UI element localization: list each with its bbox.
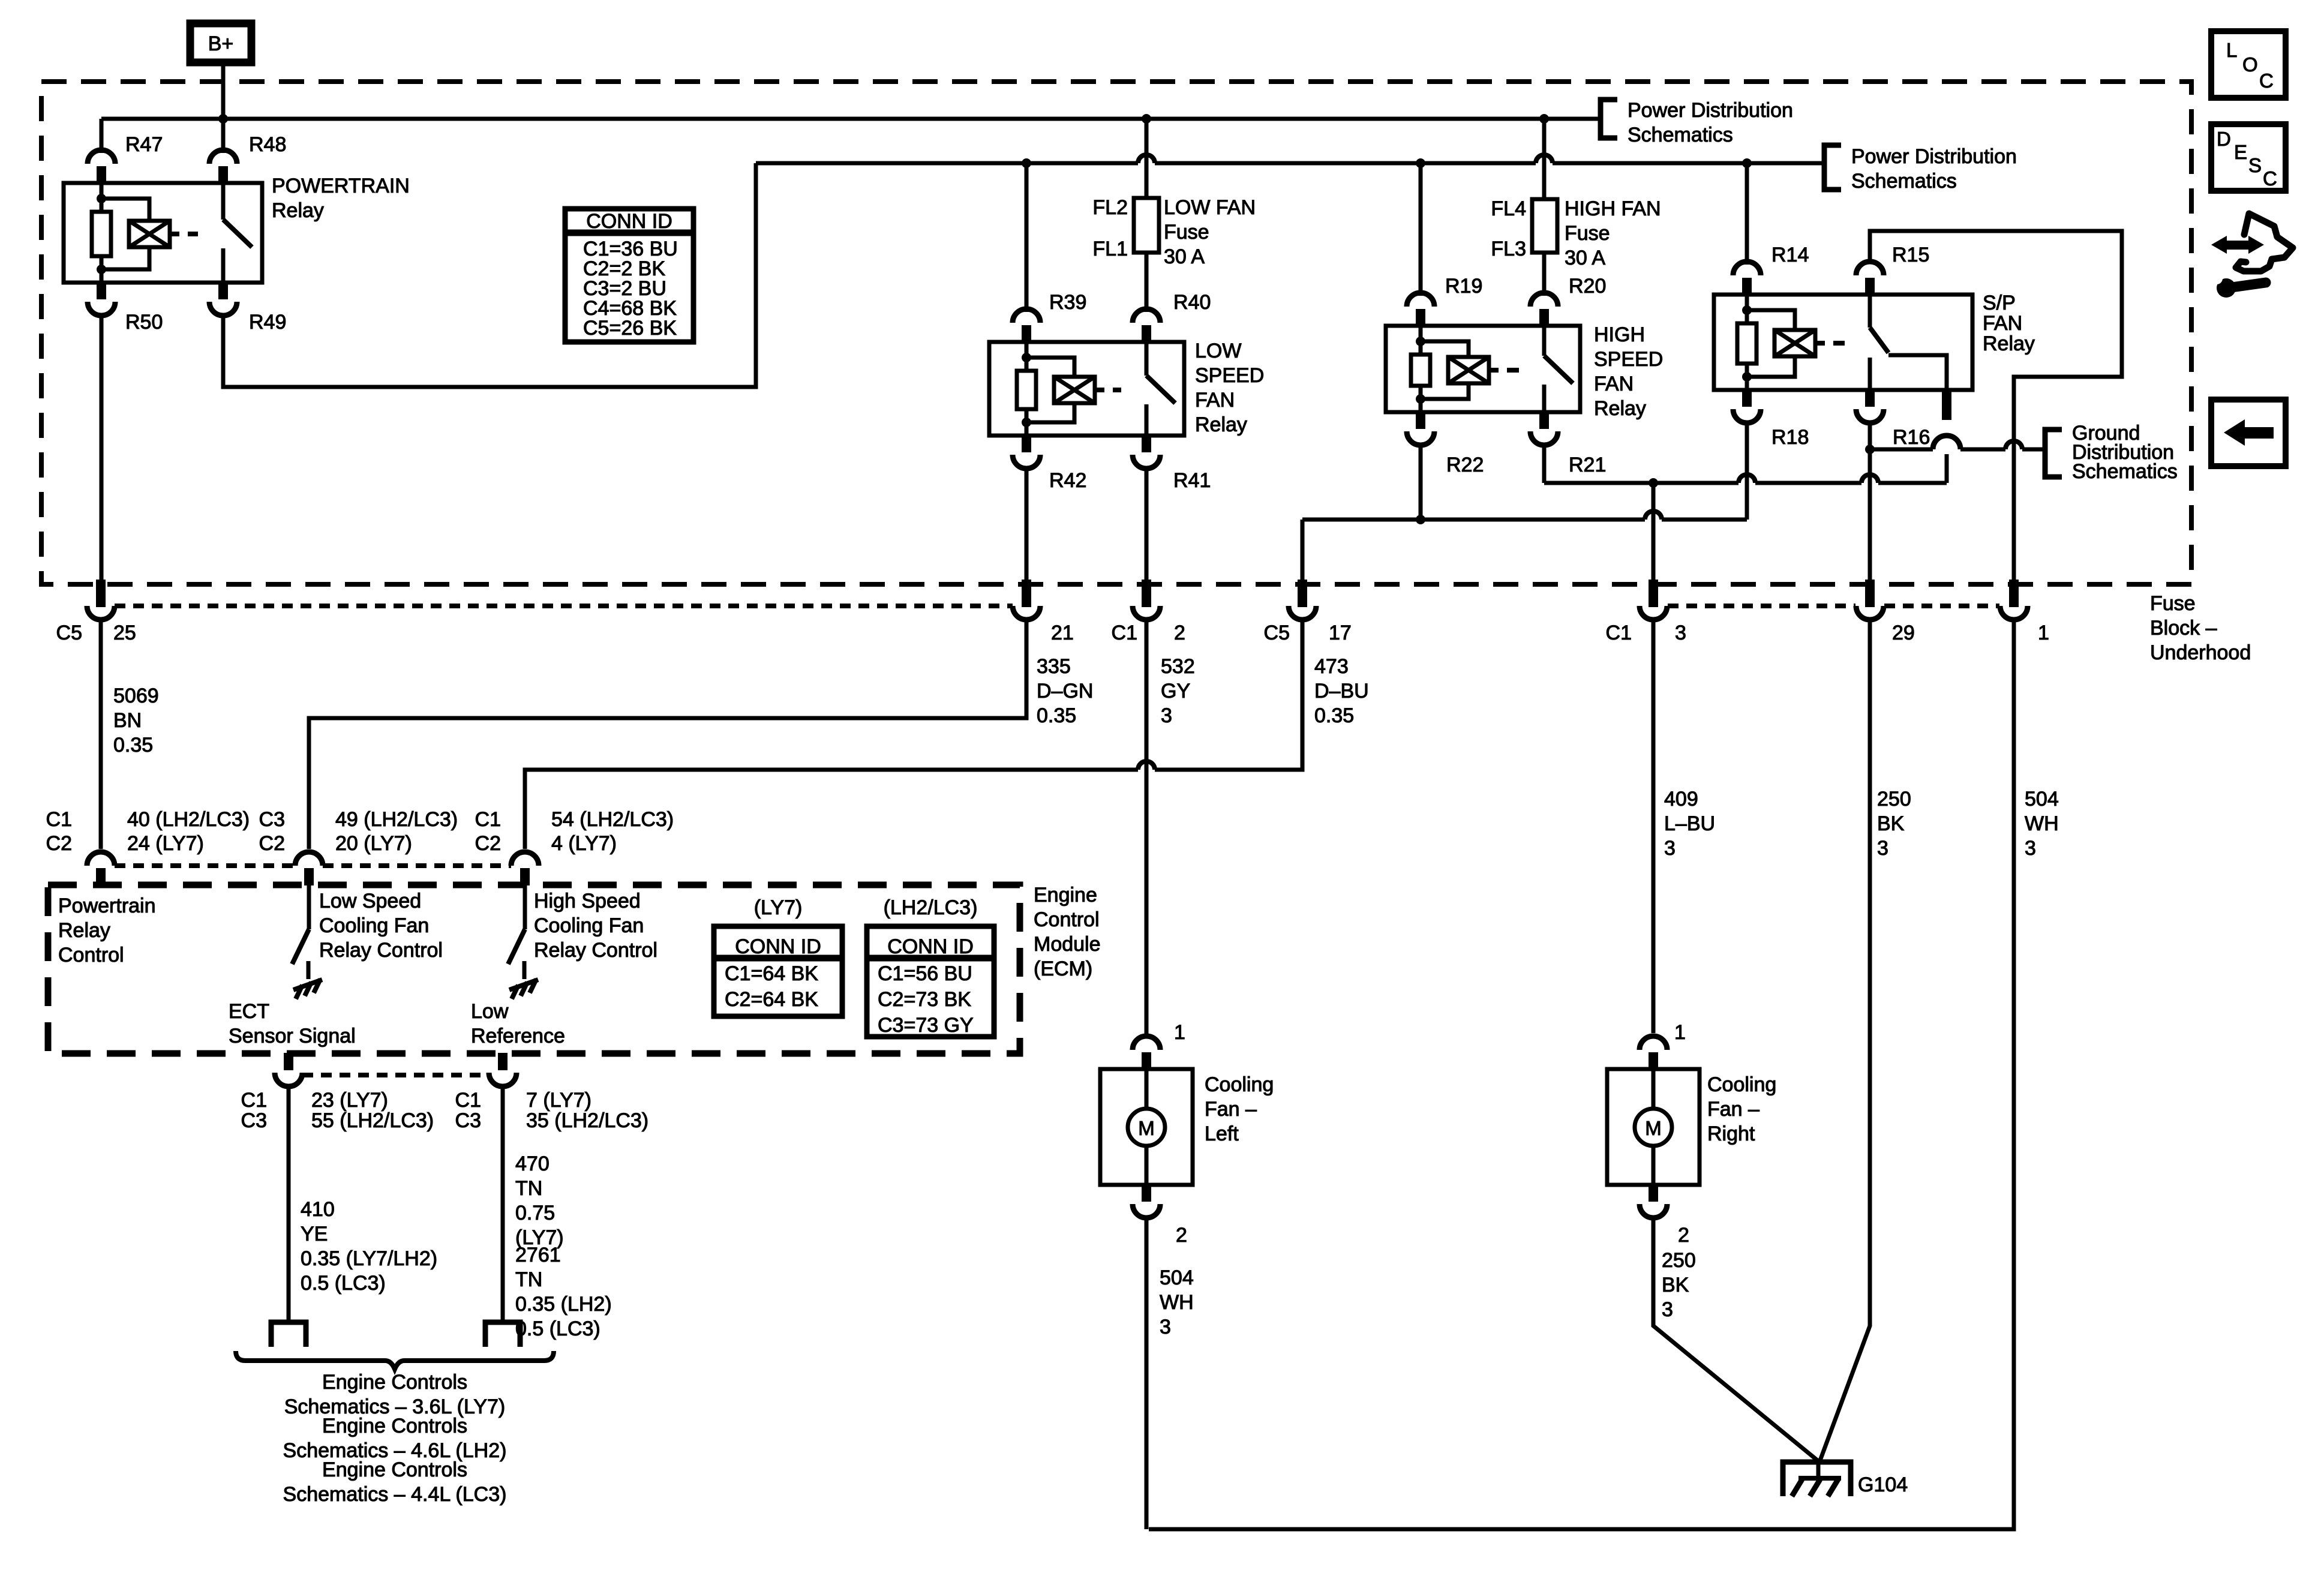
wire S/P output pin to line B	[1945, 449, 1949, 483]
wire 532 GY (pin2 to left fan)	[1145, 620, 1149, 1033]
label (LH2/LC3)	[884, 896, 978, 919]
wire R21 to S/P switched pin (line B)	[1544, 445, 1947, 489]
terminal (ECT signal off-page)	[271, 1322, 306, 1347]
ECM pin C3C2-49/20	[295, 852, 511, 885]
svg-text:D–GN: D–GN	[1037, 680, 1093, 703]
brace engine controls	[236, 1351, 554, 1369]
ECT pin C1C3-7/35	[489, 1053, 517, 1086]
pin R18	[1733, 389, 1761, 423]
svg-text:3: 3	[1664, 837, 1676, 860]
label R22	[1446, 454, 1484, 476]
svg-text:3: 3	[1662, 1298, 1673, 1321]
labels C1 C2 (ECM pin 54/4)	[475, 808, 501, 855]
pin R19	[1407, 293, 1434, 326]
svg-text:410: 410	[301, 1198, 335, 1221]
label Cooling Fan - Left	[1205, 1073, 1274, 1145]
label Engine Controls Schematics 4.4L LC3	[283, 1458, 507, 1506]
wire 250 BK (pin29 to G104)	[1819, 620, 1870, 1462]
wire S/P blade output to lower pin	[1888, 355, 1947, 390]
svg-text:0.35: 0.35	[1037, 704, 1076, 727]
svg-text:54 (LH2/LC3): 54 (LH2/LC3)	[551, 808, 674, 831]
wire R49 to bus2	[223, 163, 756, 387]
svg-text:Sensor Signal: Sensor Signal	[229, 1025, 356, 1047]
label HIGH FAN Fuse 30 A	[1565, 197, 1661, 269]
wire bus2 to R19	[1419, 163, 1423, 296]
wire fuse FL1 to R40	[1145, 253, 1149, 312]
label R50	[125, 311, 163, 334]
wire fan left pin2 504 WH	[1145, 1218, 1149, 1529]
label Power Distribution Schematics (bus1)	[1628, 99, 1793, 146]
junction R14 feed on bus2	[1742, 158, 1752, 168]
svg-text:C1: C1	[475, 808, 501, 831]
off-page bracket Power Distribution (bus1)	[1601, 100, 1617, 138]
label 410 YE 0.35/0.5	[301, 1198, 437, 1295]
label 2 (fan right pin)	[1678, 1224, 1689, 1247]
svg-text:Block –: Block –	[2150, 617, 2217, 640]
svg-text:40 (LH2/LC3): 40 (LH2/LC3)	[127, 808, 250, 831]
svg-text:3: 3	[1877, 837, 1888, 860]
svg-text:C2=64 BK: C2=64 BK	[725, 988, 818, 1011]
label Ground Distribution Schematics	[2072, 422, 2178, 483]
label 3	[1675, 622, 1686, 644]
svg-text:C1=56 BU: C1=56 BU	[878, 962, 972, 985]
pin R22	[1407, 412, 1434, 445]
svg-text:M: M	[1645, 1117, 1662, 1139]
pin R20	[1530, 293, 1558, 326]
svg-text:3: 3	[2025, 837, 2036, 860]
ECT pin C1C3-23/55	[275, 1053, 302, 1086]
pin R42	[1013, 435, 1040, 469]
ECM pin C1C2-54/4	[511, 852, 539, 885]
labels C1 C3 (ECT left)	[241, 1089, 267, 1132]
relay K-sp-fan internals	[1737, 295, 1888, 390]
battery feed B+ terminal	[190, 23, 251, 62]
svg-text:2761: 2761	[515, 1244, 561, 1266]
wire 335 D-GN (pin21 to ECM)	[309, 620, 1026, 849]
wire B+ to bus	[221, 66, 226, 119]
label R42	[1049, 469, 1086, 492]
label R20	[1569, 275, 1606, 298]
svg-text:Cooling: Cooling	[1205, 1073, 1274, 1096]
svg-text:Module: Module	[1034, 933, 1101, 956]
label R21	[1569, 454, 1606, 476]
svg-text:POWERTRAIN: POWERTRAIN	[272, 175, 410, 197]
table CONN ID (fuse block)	[565, 209, 693, 342]
svg-text:B+: B+	[208, 32, 234, 55]
svg-text:55 (LH2/LC3): 55 (LH2/LC3)	[311, 1109, 434, 1132]
svg-text:C3=73 GY: C3=73 GY	[878, 1014, 974, 1037]
pin R15	[1856, 262, 1884, 295]
svg-text:C2: C2	[259, 832, 285, 855]
junction B+ on bus1	[218, 114, 228, 124]
label Engine Controls Schematics 4.6L LH2	[283, 1415, 507, 1462]
svg-text:7 (LY7): 7 (LY7)	[526, 1089, 591, 1112]
svg-text:D: D	[2217, 128, 2231, 150]
label C5 (pin 17)	[1264, 622, 1290, 644]
svg-text:Reference: Reference	[471, 1025, 565, 1047]
connector dotted row (left)	[115, 604, 1013, 608]
svg-text:Powertrain: Powertrain	[58, 894, 156, 917]
label FL1	[1092, 238, 1128, 260]
svg-text:C: C	[2259, 70, 2274, 92]
svg-text:FL3: FL3	[1491, 238, 1526, 260]
svg-text:Control: Control	[1034, 908, 1100, 931]
wire fan left pin1 from 532 GY	[1145, 1033, 1149, 1036]
svg-text:3: 3	[1161, 704, 1172, 727]
svg-text:23 (LY7): 23 (LY7)	[311, 1089, 388, 1112]
label FL4	[1491, 197, 1526, 220]
svg-text:Relay: Relay	[1594, 397, 1646, 420]
svg-text:409: 409	[1664, 788, 1698, 810]
svg-text:D–BU: D–BU	[1314, 680, 1369, 703]
label 54 (LH2/LC3) 4 (LY7)	[551, 808, 674, 855]
svg-text:Engine Controls: Engine Controls	[322, 1415, 467, 1437]
svg-text:R49: R49	[249, 311, 286, 334]
label Engine Controls Schematics 3.6L LY7	[284, 1371, 506, 1418]
junction FL2 feed on bus1	[1142, 114, 1151, 124]
svg-text:Fuse: Fuse	[2150, 592, 2196, 615]
wire 5069 BN (pin25 to ECM)	[99, 620, 103, 849]
svg-text:Relay: Relay	[1195, 413, 1247, 436]
svg-text:Power Distribution: Power Distribution	[1851, 145, 2017, 168]
label ECT Sensor Signal	[229, 1000, 356, 1047]
svg-text:R42: R42	[1049, 469, 1086, 492]
labels C3 C2 (ECM pin)	[259, 808, 285, 855]
svg-text:R14: R14	[1771, 244, 1809, 266]
svg-text:Relay Control: Relay Control	[319, 939, 443, 962]
svg-text:Fuse: Fuse	[1565, 222, 1610, 245]
label 532 GY 3	[1161, 655, 1195, 727]
svg-text:R39: R39	[1049, 291, 1086, 314]
label 5069 BN 0.35	[113, 685, 159, 757]
svg-text:35 (LH2/LC3): 35 (LH2/LC3)	[526, 1109, 648, 1132]
svg-text:CONN ID: CONN ID	[735, 935, 821, 958]
svg-text:1: 1	[1174, 1021, 1185, 1044]
svg-text:Power Distribution: Power Distribution	[1628, 99, 1793, 122]
label Low Reference	[471, 1000, 565, 1047]
label R14	[1771, 244, 1809, 266]
svg-text:BK: BK	[1662, 1274, 1689, 1296]
svg-text:C: C	[2263, 167, 2277, 190]
svg-text:Schematics: Schematics	[2072, 460, 2178, 483]
svg-text:3: 3	[1160, 1316, 1171, 1338]
svg-text:473: 473	[1314, 655, 1349, 678]
wire R16 to ground wire junction and pin 29	[1868, 423, 1872, 584]
svg-text:FL2: FL2	[1092, 196, 1128, 219]
wire bus2 to R39	[1025, 163, 1029, 312]
svg-text:Low: Low	[471, 1000, 509, 1023]
label 470 TN 0.75 (LY7)	[515, 1152, 564, 1249]
svg-text:Engine: Engine	[1034, 884, 1097, 906]
label LOW FAN Fuse 30 A	[1164, 196, 1256, 268]
svg-text:20 (LY7): 20 (LY7)	[335, 832, 412, 855]
svg-text:504: 504	[1160, 1266, 1194, 1289]
label HIGH SPEED FAN Relay	[1594, 323, 1663, 420]
svg-text:(LH2/LC3): (LH2/LC3)	[884, 896, 978, 919]
svg-text:SPEED: SPEED	[1594, 348, 1663, 371]
svg-text:C1: C1	[46, 808, 72, 831]
pin R21	[1530, 412, 1558, 445]
svg-text:C1: C1	[455, 1089, 481, 1112]
svg-text:R21: R21	[1569, 454, 1606, 476]
label 2 (fan left pin)	[1176, 1224, 1187, 1247]
svg-text:WH: WH	[2025, 812, 2059, 835]
wire R50 to fuse block pin 25	[100, 316, 104, 584]
motor cooling fan right	[1607, 1036, 1700, 1218]
label 1 (fan right pin)	[1674, 1021, 1686, 1044]
pin R49	[209, 282, 237, 316]
svg-text:LOW: LOW	[1195, 340, 1241, 362]
svg-text:R40: R40	[1173, 291, 1211, 314]
label Power Distribution Schematics (bus2)	[1851, 145, 2017, 193]
svg-text:470: 470	[515, 1152, 550, 1175]
svg-text:250: 250	[1662, 1249, 1696, 1272]
label FL3	[1491, 238, 1526, 260]
pin R48	[209, 150, 237, 184]
pin R16	[1856, 389, 1884, 423]
fuse FL4/FL3 HIGH FAN 30A	[1532, 199, 1557, 253]
svg-text:Right: Right	[1707, 1122, 1755, 1145]
svg-text:Relay Control: Relay Control	[534, 939, 657, 962]
svg-text:Left: Left	[1205, 1122, 1239, 1145]
pin R47	[88, 150, 115, 184]
label 335 D-GN 0.35	[1037, 655, 1093, 727]
svg-text:M: M	[1138, 1117, 1155, 1139]
svg-text:1: 1	[2038, 622, 2049, 644]
svg-text:25: 25	[113, 622, 136, 644]
svg-text:R50: R50	[125, 311, 163, 334]
svg-text:Schematics – 4.4L (LC3): Schematics – 4.4L (LC3)	[283, 1483, 507, 1506]
svg-text:BN: BN	[113, 709, 142, 732]
svg-text:0.35: 0.35	[1314, 704, 1354, 727]
svg-text:504: 504	[2025, 788, 2059, 810]
label 2761 TN 0.35/0.5	[515, 1244, 612, 1340]
svg-text:C3: C3	[241, 1109, 267, 1132]
wire bus2 (relay feed)	[756, 150, 1824, 169]
fuse FL2/FL1 LOW FAN 30A	[1134, 198, 1159, 253]
svg-text:21: 21	[1051, 622, 1074, 644]
svg-text:GY: GY	[1161, 680, 1190, 703]
label R15	[1892, 244, 1929, 266]
label 25	[113, 622, 136, 644]
wire fuse FL3 to R20	[1542, 253, 1547, 296]
svg-text:Control: Control	[58, 944, 124, 966]
label 409 L-BU 3	[1664, 788, 1715, 860]
labels C1 C2 (ECM pin)	[46, 808, 72, 855]
svg-text:C2=73 BK: C2=73 BK	[878, 988, 971, 1011]
svg-text:R18: R18	[1771, 426, 1809, 449]
label FL2	[1092, 196, 1128, 219]
fuse block - underhood dashed outline	[41, 82, 2191, 584]
relay K-low-speed-fan box	[989, 342, 1184, 436]
wire line C (pin17-R22-R18)	[1302, 506, 1747, 526]
label Low Speed Cooling Fan Relay Control	[319, 890, 443, 962]
svg-text:Relay: Relay	[1983, 332, 2035, 355]
label 1 (pin)	[2038, 622, 2049, 644]
svg-text:Engine Controls: Engine Controls	[322, 1458, 467, 1481]
relay K-low-speed-fan internals	[1017, 342, 1175, 436]
svg-text:250: 250	[1877, 788, 1911, 810]
ECT connector dotted row	[302, 1073, 489, 1077]
wire 470/2761 TN (low reference)	[501, 1089, 505, 1322]
icon arrows and wrench	[2211, 214, 2293, 298]
svg-text:BK: BK	[1877, 812, 1905, 835]
junction R22 on line C	[1416, 515, 1425, 524]
svg-text:C3: C3	[455, 1109, 481, 1132]
svg-text:3: 3	[1675, 622, 1686, 644]
wire bus1 to fuse FL2	[1145, 119, 1149, 198]
svg-text:LOW FAN: LOW FAN	[1164, 196, 1256, 219]
svg-text:Fuse: Fuse	[1164, 221, 1209, 244]
junction R19 feed on bus2	[1416, 158, 1425, 168]
svg-text:C5: C5	[56, 622, 82, 644]
icon box back-arrow	[2211, 400, 2286, 466]
svg-text:Fan –: Fan –	[1707, 1098, 1759, 1121]
svg-text:4 (LY7): 4 (LY7)	[551, 832, 617, 855]
icon box DESC	[2211, 124, 2286, 191]
svg-text:Cooling Fan: Cooling Fan	[319, 914, 429, 937]
svg-text:FAN: FAN	[1195, 389, 1235, 412]
svg-text:0.35 (LY7/LH2): 0.35 (LY7/LH2)	[301, 1247, 437, 1270]
svg-text:5069: 5069	[113, 685, 159, 707]
label LOW SPEED FAN Relay	[1195, 340, 1264, 436]
relay K-high-speed-fan internals	[1411, 326, 1573, 412]
label R18	[1771, 426, 1809, 449]
svg-text:335: 335	[1037, 655, 1071, 678]
svg-text:S/P: S/P	[1983, 292, 2016, 314]
label C1 (pin 2)	[1112, 622, 1137, 644]
relay K-sp-fan box	[1714, 295, 1972, 390]
connector dotted row (right)	[1668, 604, 1999, 608]
svg-text:49 (LH2/LC3): 49 (LH2/LC3)	[335, 808, 458, 831]
wire bus2 to R14	[1745, 163, 1749, 265]
svg-text:ECT: ECT	[229, 1000, 269, 1023]
ECM pin C1C2-40/24	[87, 852, 295, 885]
svg-text:High Speed: High Speed	[534, 890, 641, 912]
pin 21	[1013, 580, 1040, 620]
wire bus1 (B+ feed)	[101, 117, 1601, 121]
svg-text:C1: C1	[1112, 622, 1137, 644]
svg-text:30 A: 30 A	[1164, 245, 1205, 268]
svg-text:R15: R15	[1892, 244, 1929, 266]
svg-text:Relay: Relay	[58, 919, 110, 942]
svg-text:Low Speed: Low Speed	[319, 890, 421, 912]
svg-text:0.5 (LC3): 0.5 (LC3)	[515, 1317, 600, 1340]
svg-text:R48: R48	[249, 133, 286, 156]
label 40 (LH2/LC3) 24 (LY7)	[127, 808, 250, 855]
label 250 BK 3 (fan right)	[1662, 1249, 1696, 1321]
svg-text:C1: C1	[241, 1089, 267, 1112]
wire R41 to fuse block pin 2	[1145, 469, 1149, 584]
junction FL4 feed on bus1	[1539, 114, 1549, 124]
svg-text:FL4: FL4	[1491, 197, 1526, 220]
label Engine Control Module (ECM)	[1034, 884, 1101, 980]
svg-text:C5=26 BK: C5=26 BK	[583, 317, 677, 340]
label 504 WH 3 (pin1)	[2025, 788, 2059, 860]
svg-text:TN: TN	[515, 1177, 542, 1200]
label 17	[1329, 622, 1352, 644]
relay K-powertrain internals	[92, 183, 252, 283]
table CONN ID (LY7)	[714, 926, 842, 1016]
svg-text:WH: WH	[1160, 1291, 1194, 1314]
svg-text:0.35 (LH2): 0.35 (LH2)	[515, 1293, 612, 1316]
label 250 BK 3 (pin29)	[1877, 788, 1911, 860]
svg-text:C3: C3	[259, 808, 285, 831]
svg-text:S: S	[2248, 154, 2262, 176]
svg-text:Cooling Fan: Cooling Fan	[534, 914, 644, 937]
label 49 (LH2/LC3) 20 (LY7)	[335, 808, 458, 855]
ECM dashed box	[48, 885, 1020, 1053]
junction R16/ground distribution	[1865, 445, 1875, 454]
wire 473 D-BU (pin17 to ECM)	[525, 620, 1302, 849]
svg-text:Schematics: Schematics	[1851, 170, 1957, 193]
off-page bracket Power Distribution (bus2)	[1824, 145, 1841, 190]
svg-text:YE: YE	[301, 1223, 328, 1245]
junction R39 feed on bus2	[1022, 158, 1031, 168]
svg-text:2: 2	[1176, 1224, 1187, 1247]
svg-text:0.5 (LC3): 0.5 (LC3)	[301, 1272, 386, 1295]
label POWERTRAIN Relay	[272, 175, 410, 222]
wire 410 YE (ECT signal)	[287, 1089, 291, 1322]
svg-text:(ECM): (ECM)	[1034, 957, 1092, 980]
label 473 D-BU 0.35	[1314, 655, 1369, 727]
pin C1-2	[1133, 580, 1160, 620]
wire R15 loop to fuse block pin 1	[1870, 231, 2122, 584]
svg-text:R19: R19	[1445, 275, 1482, 298]
svg-text:30 A: 30 A	[1565, 247, 1605, 269]
label R39	[1049, 291, 1086, 314]
label R48	[249, 133, 286, 156]
label Cooling Fan - Right	[1707, 1073, 1776, 1145]
svg-text:CONN ID: CONN ID	[887, 935, 974, 958]
svg-text:Schematics: Schematics	[1628, 124, 1733, 146]
label R19	[1445, 275, 1482, 298]
label 504 WH 3 (fan left)	[1160, 1266, 1194, 1338]
wire line B to fuse block pin C1-3	[1652, 483, 1656, 584]
label (LY7)	[754, 896, 803, 919]
label Fuse Block - Underhood	[2150, 592, 2251, 664]
svg-text:L: L	[2226, 39, 2237, 61]
svg-text:C1=64 BK: C1=64 BK	[725, 962, 818, 985]
wire R16 to Ground Distribution bracket	[1870, 436, 2045, 455]
svg-text:O: O	[2242, 53, 2258, 76]
pin C5-17	[1289, 580, 1316, 620]
svg-text:FAN: FAN	[1594, 373, 1634, 395]
wire bus1 to R47	[100, 119, 104, 153]
wire R22 down	[1419, 445, 1423, 520]
icon box LOC	[2211, 31, 2286, 98]
label 29	[1892, 622, 1915, 644]
svg-text:1: 1	[1674, 1021, 1686, 1044]
junction line B to pin C1-3 wire	[1649, 478, 1658, 488]
label 1 (fan left pin)	[1174, 1021, 1185, 1044]
relay K-high-speed-fan box	[1386, 326, 1580, 412]
pin 1	[2000, 580, 2028, 620]
svg-text:Cooling: Cooling	[1707, 1073, 1776, 1096]
label C1 (pin 3)	[1606, 622, 1632, 644]
svg-text:532: 532	[1161, 655, 1195, 678]
pin S/P switched output (arc on crossing)	[1942, 389, 1951, 420]
label C5 (pin 25)	[56, 622, 82, 644]
svg-text:Fan –: Fan –	[1205, 1098, 1257, 1121]
svg-text:Underhood: Underhood	[2150, 641, 2251, 664]
pin R41	[1133, 435, 1160, 469]
label 23 (LY7) 55 (LH2/LC3)	[311, 1089, 434, 1132]
svg-text:R20: R20	[1569, 275, 1606, 298]
svg-text:TN: TN	[515, 1268, 542, 1291]
svg-text:Relay: Relay	[272, 199, 324, 222]
svg-text:C1: C1	[1606, 622, 1632, 644]
